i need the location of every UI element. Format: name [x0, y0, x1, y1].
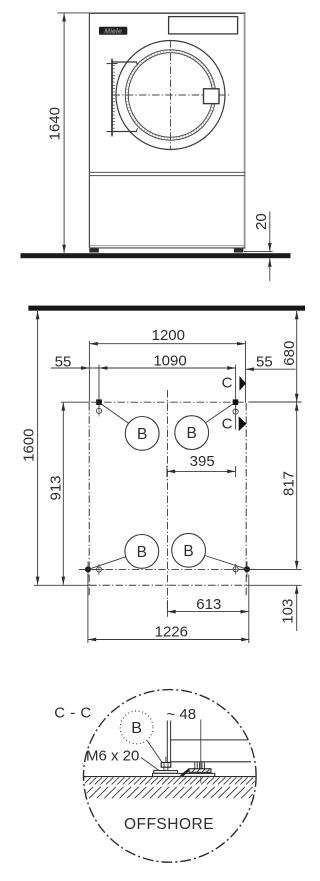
left foot — [89, 248, 99, 252]
dim 613 line — [167, 575, 248, 644]
door outer circle — [116, 41, 225, 150]
machine plan left edge — [88, 403, 90, 595]
door rim circles — [125, 50, 215, 140]
machine plan front edge — [89, 584, 246, 586]
callout B top-right — [175, 416, 209, 450]
dim 395 line — [167, 466, 236, 477]
machine side panel detail — [167, 721, 170, 763]
machine base line detail — [171, 761, 251, 763]
svg-text:613: 613 — [196, 596, 221, 613]
door top chord — [112, 62, 138, 65]
svg-text:C: C — [222, 375, 233, 392]
svg-text:M6 x 20: M6 x 20 — [86, 748, 139, 765]
svg-text:55: 55 — [55, 354, 72, 371]
dim 395 label — [190, 453, 215, 470]
plinth bottom recess line — [90, 245, 245, 247]
svg-text:913: 913 — [47, 475, 64, 500]
svg-text:B: B — [137, 544, 147, 561]
dim 1090 line — [89, 366, 235, 370]
bolt washer — [154, 771, 178, 774]
callout B bottom-left — [125, 535, 159, 569]
detail label C-C — [54, 705, 91, 722]
leader top-left — [101, 404, 129, 424]
dim 1640 dimension line — [62, 13, 66, 253]
svg-text:B: B — [137, 426, 147, 443]
offshore bracket clamp arm — [181, 769, 190, 776]
door latch — [204, 89, 220, 104]
bolt top-right — [233, 399, 239, 405]
dim 20 label — [253, 213, 270, 230]
svg-text:395: 395 — [190, 453, 215, 470]
bolt bottom-right — [239, 562, 255, 578]
leader bottom-right — [205, 556, 246, 569]
svg-text:B: B — [183, 543, 193, 560]
ground hatching — [74, 777, 268, 798]
dim 55 right label — [256, 353, 273, 370]
dim 55 left label — [55, 354, 72, 371]
wall bar — [28, 306, 305, 311]
foot threaded stem — [195, 762, 205, 768]
callout B bottom-right — [172, 533, 206, 567]
Miele logo — [99, 27, 127, 36]
ground surface line — [84, 776, 256, 778]
dim 1640 top extension line — [58, 12, 90, 14]
bolt M6 shaft — [164, 767, 168, 770]
svg-text:20: 20 — [253, 213, 270, 230]
callout B detail — [120, 711, 153, 744]
dim 1090 extension lines — [99, 365, 236, 430]
svg-text:C - C: C - C — [54, 705, 91, 722]
foot circle top-right — [233, 406, 238, 417]
machine foot flange — [189, 769, 211, 773]
dim 1640 label — [46, 107, 63, 140]
bolt bottom-left — [80, 562, 96, 578]
dim 1600 label — [20, 429, 37, 462]
machine plan centerline — [167, 390, 169, 614]
dim 1600 line — [36, 311, 40, 585]
dim 48 right extension — [200, 720, 202, 764]
right foot — [234, 248, 244, 252]
bolt M6 head — [161, 762, 171, 767]
door centerline vertical — [170, 40, 172, 150]
foot circle bottom-left — [94, 564, 105, 575]
extension line bottom row right — [250, 568, 302, 570]
hinge cross top — [107, 58, 118, 69]
svg-text:1090: 1090 — [153, 352, 186, 369]
offshore bracket base plate — [153, 773, 215, 776]
floor line — [21, 253, 291, 258]
hole row bottom centerline — [79, 568, 250, 570]
dim 1090 label — [153, 352, 186, 369]
callout B top-left — [125, 417, 159, 451]
svg-text:~ 48: ~ 48 — [167, 706, 197, 723]
leader M6 — [141, 758, 159, 771]
dim 680 line — [295, 311, 299, 402]
dim 680 label — [281, 341, 298, 366]
svg-text:55: 55 — [256, 353, 273, 370]
bolt top-left — [96, 395, 102, 411]
dim 1226 label — [155, 623, 188, 640]
svg-text:B: B — [131, 720, 142, 737]
foot centerline detail — [200, 763, 202, 783]
svg-text:103: 103 — [279, 599, 296, 624]
dim 103 label — [279, 599, 296, 624]
svg-text:B: B — [187, 425, 197, 442]
dim 913 line — [61, 402, 65, 585]
dim ~48 label — [167, 706, 197, 723]
leader B detail — [147, 741, 162, 763]
svg-text:Miele: Miele — [104, 28, 122, 35]
svg-text:1640: 1640 — [46, 107, 63, 140]
machine plan right edge — [245, 403, 247, 595]
extension line front edge right — [247, 584, 302, 586]
body-plinth separation lines — [89, 172, 245, 175]
hinge cross bottom — [107, 126, 118, 137]
svg-text:OFFSHORE: OFFSHORE — [124, 816, 214, 833]
hole row top centerline — [91, 401, 244, 403]
svg-text:1200: 1200 — [152, 327, 185, 344]
machine interior line detail — [171, 739, 248, 741]
door bottom chord — [112, 128, 138, 131]
extension line hole row right — [249, 401, 302, 403]
leader bottom-left — [90, 557, 126, 569]
dim 1200 extension lines — [89, 341, 245, 403]
svg-text:1600: 1600 — [20, 429, 37, 462]
extension line front edge left — [34, 584, 89, 586]
extension line hole row left — [61, 401, 89, 403]
bolt centerline detail — [165, 757, 167, 784]
dim 20 dimension line — [268, 212, 272, 282]
dim 913 label — [47, 475, 64, 500]
svg-text:680: 680 — [281, 341, 298, 366]
svg-text:C: C — [222, 416, 233, 433]
foot circle top-left — [96, 406, 101, 417]
dim 55 left line — [51, 366, 90, 370]
svg-text:1226: 1226 — [155, 623, 188, 640]
dim 817 line — [295, 402, 299, 569]
leader top-right — [205, 403, 234, 423]
section C lower — [222, 416, 247, 433]
dim 613 label — [196, 596, 221, 613]
label OFFSHORE — [124, 816, 214, 833]
dim 1200 line — [89, 342, 245, 346]
dim 20 extension line — [244, 250, 273, 252]
dim 103 line — [295, 585, 299, 631]
foot circle bottom-right — [230, 564, 241, 575]
label M6 x 20 — [86, 748, 139, 765]
dim 1200 label — [152, 327, 185, 344]
door hinge bar — [112, 59, 115, 135]
door centerline horizontal — [113, 94, 230, 96]
machine front outline — [89, 13, 246, 248]
detail boundary circle — [84, 690, 257, 863]
section C upper — [222, 375, 246, 392]
dim 817 label — [281, 471, 298, 496]
dim 55 right line — [246, 367, 296, 371]
control panel — [169, 17, 238, 34]
svg-text:817: 817 — [281, 471, 298, 496]
dim 1226 line — [88, 574, 250, 644]
